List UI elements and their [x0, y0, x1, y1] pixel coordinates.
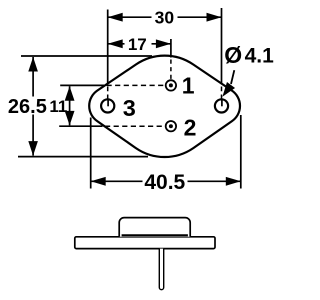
- flange outline (TO-3 top view): [89, 56, 240, 157]
- can weld line: [122, 234, 188, 236]
- svg-text:40.5: 40.5: [144, 171, 185, 194]
- svg-text:17: 17: [128, 35, 147, 54]
- dim 17: line, arrows, text: [108, 43, 125, 45]
- centre line dashed down to pin 1: [170, 60, 172, 81]
- svg-text:4.1: 4.1: [245, 45, 275, 68]
- pin 2: [166, 121, 176, 131]
- dim 11: line, arrows, text: [69, 86, 71, 125]
- extension line x=221.5 (dim 30 right): [221, 8, 223, 84]
- leader line to right hole: [231, 70, 234, 84]
- svg-text:1: 1: [182, 72, 195, 98]
- mounting hole right: [215, 99, 228, 112]
- pin 1: [166, 80, 176, 90]
- extension line x=107.7 (hole centre / dim 30+17 left): [107, 10, 109, 84]
- centre line dashed to left hole: [107, 87, 109, 100]
- left hole centre tick: [107, 99, 109, 106]
- dim 26.5: line, arrows, text: [32, 57, 34, 97]
- svg-text:30: 30: [155, 8, 175, 28]
- centre line dashed to right hole: [221, 87, 223, 100]
- dim 40.5: line, arrows, text: [91, 180, 143, 182]
- dim 26.5: extension lines top/bottom: [21, 55, 152, 57]
- svg-text:11: 11: [49, 97, 67, 116]
- extension line x=170.9 (dim 17 right): [170, 39, 172, 58]
- pin 1 row centre line: solid extension then dashed: [60, 84, 104, 86]
- pin 2 row centre line: solid extension then dashed: [59, 125, 102, 127]
- lead (side view): [159, 249, 163, 290]
- side view can (cap): [119, 218, 190, 237]
- svg-text:26.5: 26.5: [8, 96, 47, 118]
- svg-text:3: 3: [123, 95, 136, 121]
- side view flange bar: [75, 237, 215, 249]
- svg-text:2: 2: [184, 114, 197, 140]
- right hole centre tick: [221, 99, 223, 106]
- mounting hole left: [101, 99, 114, 112]
- svg-text:Ø: Ø: [224, 42, 242, 68]
- dim 40.5: extension lines: [90, 118, 92, 189]
- dim 30: line, arrows, text: [108, 16, 152, 18]
